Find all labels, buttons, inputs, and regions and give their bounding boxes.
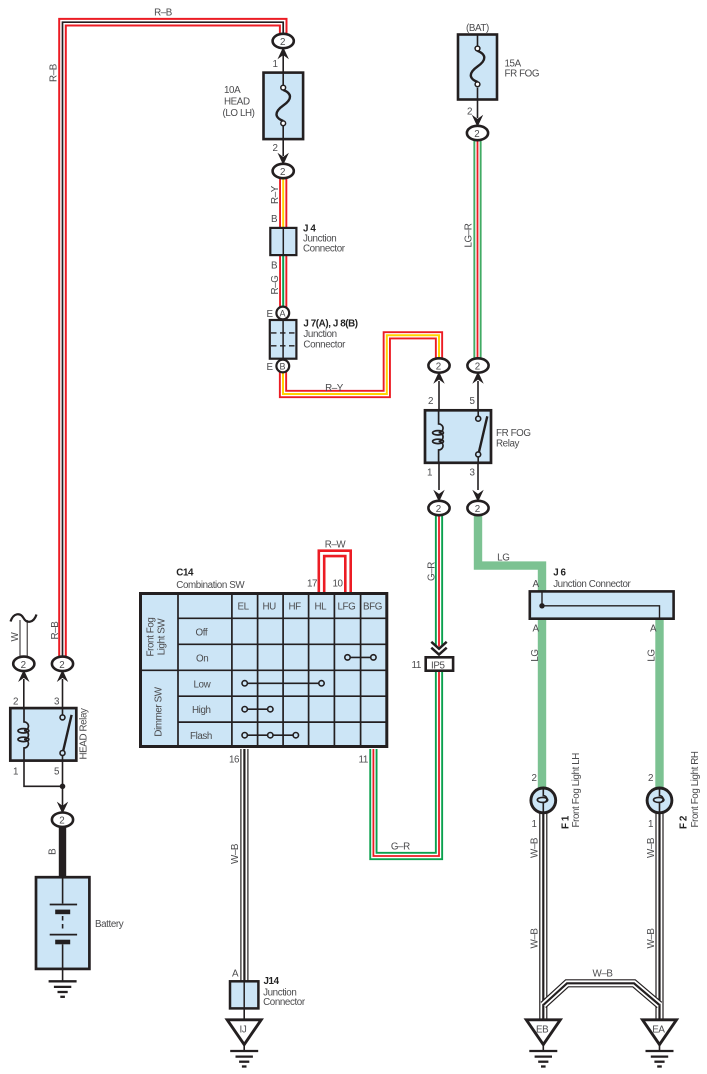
svg-text:LG: LG [647, 649, 658, 661]
svg-text:R–Y: R–Y [270, 185, 281, 204]
svg-text:16: 16 [229, 755, 240, 766]
svg-text:R–B: R–B [154, 8, 173, 19]
svg-text:B: B [271, 214, 278, 225]
svg-text:Flash: Flash [190, 731, 212, 742]
svg-text:W–B: W–B [646, 837, 657, 858]
wire break squiggle on W wire [11, 614, 37, 622]
connector node 2 at FR FOG relay pin2 [428, 358, 449, 372]
svg-text:11: 11 [412, 660, 421, 671]
svg-text:A: A [280, 309, 286, 319]
svg-text:HL: HL [315, 602, 328, 613]
wire W-B front fog light LH to ground EB [539, 812, 547, 1021]
svg-text:EL: EL [238, 602, 250, 613]
combination switch C14 table [141, 594, 387, 747]
svg-text:2: 2 [436, 362, 441, 373]
svg-text:Off: Off [196, 628, 208, 639]
svg-text:3: 3 [54, 697, 60, 708]
wire W-B front fog light RH to ground EA [655, 812, 663, 1021]
wire R-W loop combination SW pins 17-10 [322, 553, 349, 593]
svg-text:F 2: F 2 [679, 815, 690, 829]
fuse 15A FR FOG [458, 23, 539, 100]
wire link fuse 10A bottom [282, 139, 284, 156]
svg-text:HU: HU [263, 602, 277, 613]
svg-text:2: 2 [280, 167, 285, 178]
svg-text:Junction Connector: Junction Connector [553, 579, 631, 590]
svg-text:LG: LG [497, 553, 509, 564]
connector node 2 at FR FOG relay pin5 [467, 358, 488, 372]
wire LG J6 to front fog light LH [538, 618, 546, 789]
svg-text:A: A [533, 579, 540, 590]
connector node 2 below relay pin1 [428, 501, 449, 515]
ground symbol below EA [646, 1044, 674, 1067]
wire link HEAD relay pin2 [23, 679, 25, 708]
svg-text:FR FOG: FR FOG [496, 428, 531, 439]
ground triangle EA [643, 1020, 677, 1045]
wire R-G J4 to J7 [279, 254, 287, 313]
svg-text:10: 10 [333, 579, 344, 590]
svg-text:2: 2 [59, 816, 64, 827]
svg-text:Front Fog Light LH: Front Fog Light LH [571, 753, 582, 828]
svg-text:2: 2 [467, 107, 472, 118]
wire G-R relay pin1 node to IP5 [435, 512, 443, 647]
IP5 box [426, 657, 453, 671]
svg-text:G–R: G–R [426, 562, 437, 581]
svg-text:E: E [267, 309, 274, 320]
arrow up into W node [18, 670, 29, 682]
wire link HEAD relay pin1 to junction [24, 761, 63, 787]
svg-text:R–W: R–W [325, 540, 347, 551]
svg-text:BFG: BFG [363, 602, 382, 613]
svg-text:Connector: Connector [303, 340, 346, 351]
connector node 2 below fuse 15A [467, 126, 488, 140]
wire link fuse 10A top to connector [282, 55, 284, 73]
wire W-B combination SW pin16 to J14 [240, 749, 248, 982]
wire link relay pin2 [438, 381, 440, 410]
wire R-B from HEAD relay pin3 node up across to fuse 10A HEAD [63, 22, 284, 660]
svg-text:2: 2 [436, 504, 441, 515]
junction connector J4 [270, 224, 345, 256]
svg-text:2: 2 [59, 660, 64, 671]
svg-text:2: 2 [280, 37, 285, 48]
svg-text:1: 1 [427, 468, 432, 479]
wire link relay pin1 [438, 463, 440, 490]
arrow up into R-B node [57, 670, 68, 682]
svg-text:F 1: F 1 [561, 815, 572, 829]
svg-text:R–B: R–B [50, 621, 61, 640]
svg-text:R–Y: R–Y [325, 383, 344, 394]
svg-text:G–R: G–R [391, 842, 410, 853]
wire link relay pin3 [477, 463, 479, 490]
arrow up into relay pin5 node [472, 372, 483, 384]
relay FR FOG [425, 410, 531, 463]
wire LG relay pin3 node to J6 [478, 512, 542, 593]
svg-text:High: High [192, 705, 211, 716]
svg-text:5: 5 [54, 767, 60, 778]
svg-text:2: 2 [474, 129, 479, 140]
svg-text:Combination SW: Combination SW [176, 580, 245, 591]
ground symbol below battery [49, 969, 77, 997]
svg-text:A: A [650, 624, 657, 635]
svg-text:Connector: Connector [263, 997, 306, 1008]
svg-text:2: 2 [532, 773, 537, 784]
svg-text:2: 2 [428, 396, 433, 407]
wire link HEAD relay pin5 down [62, 761, 64, 806]
relay HEAD [10, 708, 89, 761]
svg-text:HF: HF [289, 602, 302, 613]
svg-text:1: 1 [532, 819, 537, 830]
contact On row LFG-BFG [345, 655, 376, 660]
svg-text:LFG: LFG [338, 602, 356, 613]
svg-text:J14: J14 [264, 976, 280, 987]
svg-text:2: 2 [273, 143, 278, 154]
arrow down into node below relay pin1 [433, 490, 444, 502]
svg-text:(LO LH): (LO LH) [223, 108, 255, 119]
svg-text:Light SW: Light SW [157, 618, 168, 656]
svg-text:Dimmer SW: Dimmer SW [154, 686, 165, 736]
ground triangle IJ [227, 1020, 261, 1045]
svg-text:J 6: J 6 [553, 568, 566, 579]
svg-text:J 7(A), J 8(B): J 7(A), J 8(B) [303, 319, 357, 330]
svg-text:IP5: IP5 [431, 661, 445, 672]
wire link relay pin5 [477, 381, 479, 410]
svg-text:Junction: Junction [303, 329, 336, 340]
svg-text:A: A [533, 624, 540, 635]
front fog light RH bulb F2 [647, 788, 672, 814]
svg-text:Front Fog: Front Fog [146, 618, 157, 657]
arrow up into connector above fuse 10A [278, 47, 289, 59]
battery [36, 877, 124, 969]
svg-text:W–B: W–B [230, 843, 241, 864]
svg-text:W–B: W–B [646, 928, 657, 949]
wire link HEAD relay pin3 [62, 679, 64, 708]
arrow down into connector below fuse 10A [278, 153, 289, 165]
svg-text:B: B [48, 848, 59, 855]
wire LG-R fuse FR FOG to relay pin5 node [473, 135, 481, 360]
svg-text:R–G: R–G [270, 276, 281, 295]
connector node 2 on R-B wire at HEAD relay [52, 657, 73, 671]
contact High row EL-HU [242, 707, 273, 712]
arrow down into battery node [57, 802, 68, 814]
svg-text:1: 1 [273, 59, 278, 70]
wire link J14 to IJ [243, 1008, 245, 1021]
wire R-Y from J7 pin B to FR FOG relay pin2 node [283, 335, 439, 394]
svg-text:On: On [196, 653, 208, 664]
contact Flash row EL-HU-HF [242, 733, 298, 738]
svg-text:E: E [267, 362, 274, 373]
connector node 2 on W wire at HEAD relay [13, 657, 34, 671]
fuse 10A HEAD (LO LH) [223, 73, 304, 140]
svg-text:Front Fog Light RH: Front Fog Light RH [690, 751, 701, 827]
svg-text:W: W [10, 631, 21, 641]
connector node 2 above fuse 10A [273, 34, 294, 48]
pin A circle of J7 [276, 307, 289, 320]
svg-text:FR FOG: FR FOG [505, 69, 540, 80]
wire G-R IP5 to combination SW pin11 [373, 671, 439, 857]
connector node 2 above battery [52, 813, 73, 827]
arrow up into relay pin2 node [433, 372, 444, 384]
connector node 2 below relay pin3 [467, 501, 488, 515]
svg-text:11: 11 [359, 755, 368, 766]
wire W to HEAD relay pin2 node [20, 620, 28, 660]
svg-text:2: 2 [475, 362, 480, 373]
svg-text:EA: EA [652, 1025, 665, 1036]
wire LG J6 to front fog light RH [655, 618, 663, 789]
svg-text:17: 17 [307, 579, 317, 590]
ground symbol below IJ [230, 1044, 258, 1067]
svg-text:IJ: IJ [240, 1025, 247, 1036]
svg-text:2: 2 [475, 504, 480, 515]
connector node 2 below fuse 10A [273, 164, 294, 178]
svg-text:C14: C14 [176, 568, 194, 579]
svg-text:LG–R: LG–R [464, 223, 475, 247]
svg-text:R–B: R–B [49, 63, 60, 82]
svg-text:10A: 10A [224, 85, 241, 96]
svg-text:5: 5 [470, 396, 476, 407]
ground triangle EB [526, 1020, 560, 1045]
svg-text:Relay: Relay [496, 439, 520, 450]
wire link fuse 15A bottom [477, 100, 479, 119]
svg-text:A: A [232, 969, 239, 980]
svg-text:W–B: W–B [530, 928, 541, 949]
front fog light LH bulb F1 [531, 788, 556, 814]
junction connector J7(A) J8(B) [270, 319, 358, 359]
wire B battery to node [59, 824, 66, 878]
svg-text:Connector: Connector [303, 244, 346, 255]
wire W-B bridge between EB and EA legs [543, 983, 659, 1005]
svg-text:2: 2 [21, 660, 26, 671]
svg-text:LG: LG [530, 649, 541, 661]
pin B circle of J7 [276, 360, 289, 373]
junction dot below HEAD relay [60, 784, 66, 790]
svg-text:B: B [271, 261, 278, 272]
svg-text:W–B: W–B [530, 837, 541, 858]
svg-text:HEAD: HEAD [224, 97, 250, 108]
arrow down into connector below fuse 15A [472, 115, 483, 127]
svg-text:B: B [280, 362, 286, 372]
junction connector J6 [530, 568, 674, 619]
svg-text:Low: Low [194, 679, 212, 690]
svg-text:1: 1 [13, 767, 18, 778]
svg-text:(BAT): (BAT) [466, 23, 489, 34]
svg-text:2: 2 [13, 697, 18, 708]
svg-text:EB: EB [536, 1025, 549, 1036]
double chevron arrow into IP5 [431, 642, 446, 655]
junction connector J14 [230, 976, 306, 1008]
contact Low row EL-HL [242, 681, 324, 686]
svg-text:3: 3 [470, 468, 476, 479]
svg-text:1: 1 [648, 819, 653, 830]
svg-text:2: 2 [648, 773, 653, 784]
svg-text:HEAD Relay: HEAD Relay [79, 708, 90, 759]
svg-text:Battery: Battery [95, 919, 124, 930]
wire R-Y fuse to J4 [279, 171, 287, 229]
arrow down into node below relay pin3 [472, 490, 483, 502]
ground symbol below EB [529, 1044, 557, 1067]
svg-text:W–B: W–B [592, 969, 613, 980]
